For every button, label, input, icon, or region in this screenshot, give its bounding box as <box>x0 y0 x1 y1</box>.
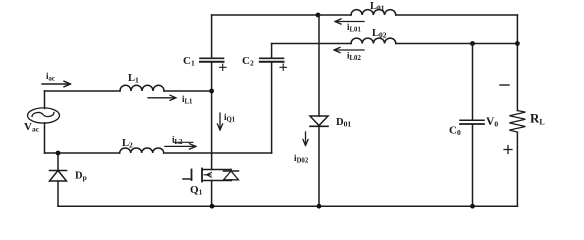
wire C2 bottom down to L2 line <box>271 62 273 153</box>
svg-text:D01: D01 <box>336 117 351 129</box>
wire RL branch bottom <box>516 132 518 206</box>
wire Vac top (corner down to source) <box>44 91 46 109</box>
current arrow iL2 <box>165 142 196 149</box>
minus sign output <box>500 84 509 86</box>
label L01 <box>370 1 385 13</box>
current arrow iL02 <box>334 47 364 52</box>
label iL2 <box>172 135 183 146</box>
wire L1 line left (source corner to coil) <box>45 90 121 92</box>
svg-text:iL02: iL02 <box>347 51 361 62</box>
label iac <box>46 71 55 82</box>
wire RL branch top <box>516 44 518 111</box>
label Q1 <box>190 184 203 197</box>
svg-text:Dp: Dp <box>75 171 87 183</box>
label L2 <box>122 138 133 150</box>
diode D01 <box>310 15 328 206</box>
inductor L2 <box>120 148 164 153</box>
label iL01 <box>347 22 361 33</box>
svg-text:C1: C1 <box>183 55 195 68</box>
label Dp <box>75 171 87 183</box>
junction node RL top <box>515 41 520 46</box>
wire L02 line left (C2 corner to coil) <box>272 43 351 45</box>
junction node Q1 source / bottom rail <box>210 204 215 209</box>
transistor Q1 (MOSFET with body diode) <box>183 169 239 182</box>
plus sign output <box>504 146 512 154</box>
svg-text:RL: RL <box>530 111 545 127</box>
wire Q1 source to bottom rail <box>211 181 213 207</box>
wire C0 branch bottom <box>472 124 474 206</box>
diode Dp <box>50 153 67 206</box>
label iD02 <box>294 153 309 164</box>
wire C1 bottom to L1 node and down to Q1 drain <box>211 62 213 170</box>
wire C0 branch top <box>472 44 474 121</box>
label Vac <box>24 121 40 134</box>
capacitor C2 <box>260 58 284 62</box>
svg-text:iL2: iL2 <box>172 135 183 146</box>
svg-text:L02: L02 <box>372 28 387 40</box>
capacitor C0 <box>460 120 484 124</box>
svg-text:C0: C0 <box>449 125 461 138</box>
svg-text:iL1: iL1 <box>182 94 193 105</box>
svg-text:iD02: iD02 <box>294 153 309 164</box>
junction node L1/C1 <box>209 89 214 94</box>
wire C2 branch top corner <box>271 44 273 59</box>
wire L2 line right (coil to C2 corner) <box>164 152 272 154</box>
svg-text:V0: V0 <box>486 116 498 129</box>
current arrow iac <box>42 81 71 87</box>
plus sign C1 <box>220 64 227 71</box>
current arrow iL01 <box>335 19 364 24</box>
label C0 <box>449 125 461 138</box>
inductor L1 <box>120 85 164 91</box>
wire top rail left (C1 top to L01) <box>212 14 351 16</box>
label L02 <box>372 28 387 40</box>
label iL1 <box>182 94 193 105</box>
wire L1 line right (coil to node) <box>164 90 212 92</box>
wire L2 line left <box>45 152 120 154</box>
label iQ1 <box>224 112 236 123</box>
inductor L02 <box>351 38 396 43</box>
plus sign C2 <box>280 64 287 71</box>
wire top rail right (L01 to right corner) <box>396 14 518 16</box>
label iL02 <box>347 51 361 62</box>
resistor RL <box>509 111 525 133</box>
junction node D01 top <box>316 13 321 18</box>
current arrow iL1 <box>148 95 176 100</box>
capacitor C1 <box>200 58 224 62</box>
current arrow iD02 <box>303 132 308 146</box>
wire C1 branch top (top rail to C1 plate) <box>211 15 213 58</box>
junction node D01 / bottom rail <box>317 204 322 209</box>
svg-text:Q1: Q1 <box>190 184 203 197</box>
wire L02 line right (coil to RL branch) <box>396 43 518 45</box>
svg-text:iL01: iL01 <box>347 22 361 33</box>
label D01 <box>336 117 351 129</box>
svg-text:C2: C2 <box>242 55 254 68</box>
wire Vac bottom (source to L2 line) <box>44 123 46 153</box>
inductor L01 <box>351 10 396 15</box>
label L1 <box>128 73 139 85</box>
svg-text:iQ1: iQ1 <box>224 112 236 123</box>
svg-text:L01: L01 <box>370 1 385 13</box>
svg-text:L1: L1 <box>128 73 139 85</box>
junction node C0 top <box>470 41 475 46</box>
junction node C0 / bottom rail <box>470 204 475 209</box>
wire bottom rail <box>58 205 517 207</box>
label C2 <box>242 55 254 68</box>
svg-text:iac: iac <box>46 71 55 82</box>
wire right branch upper (top rail corner down to L02 node) <box>516 15 518 44</box>
AC source Vac <box>28 108 60 123</box>
current arrow iQ1 <box>217 113 222 130</box>
label C1 <box>183 55 195 68</box>
label RL <box>530 111 545 127</box>
svg-text:L2: L2 <box>122 138 133 150</box>
label V0 <box>486 116 498 129</box>
junction node Dp top <box>56 151 61 156</box>
